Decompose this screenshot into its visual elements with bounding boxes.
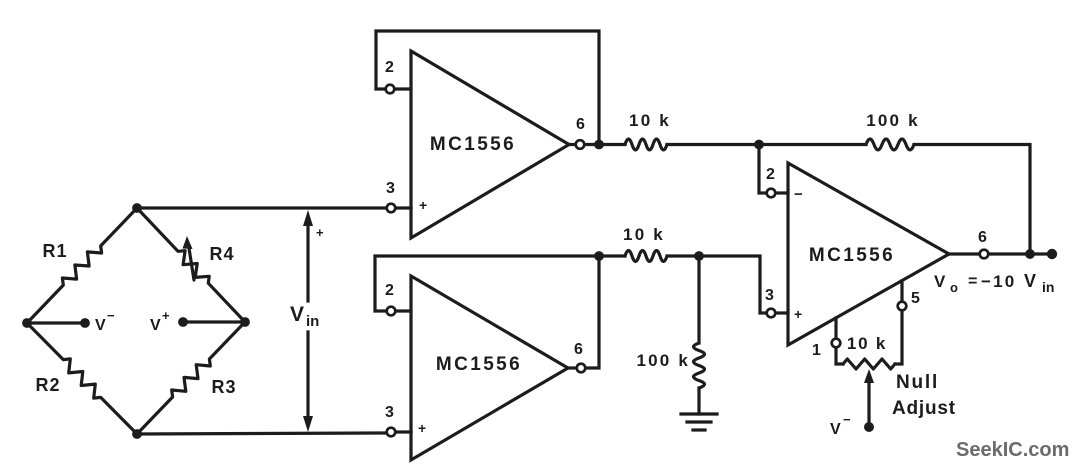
svg-text:−10: −10 xyxy=(981,272,1016,291)
pin 6 of U1 xyxy=(576,140,585,149)
pin 6 of U3 xyxy=(980,250,989,259)
svg-text:o: o xyxy=(950,280,958,295)
svg-text:SeekIC.com: SeekIC.com xyxy=(956,439,1069,461)
wire U2 feedback pin2 to output xyxy=(375,256,599,368)
pin 6 of U2 xyxy=(577,364,586,373)
wire U3 pin1 from triangle xyxy=(834,318,837,338)
resistor R3 xyxy=(137,322,245,434)
svg-text:2: 2 xyxy=(385,282,394,299)
op-amp U2 triangle xyxy=(411,276,568,460)
resistor R6 100k feedback xyxy=(866,139,914,150)
svg-text:6: 6 xyxy=(574,341,583,358)
svg-text:V: V xyxy=(1024,271,1036,291)
svg-text:+: + xyxy=(418,420,426,436)
wire U3 pin5 from triangle xyxy=(900,281,903,301)
svg-text:MC1556: MC1556 xyxy=(436,354,522,375)
op-amp U1 triangle xyxy=(411,51,569,238)
node output terminal xyxy=(1047,249,1057,259)
wire node to U3 pin2 xyxy=(759,145,766,194)
svg-text:2: 2 xyxy=(766,166,775,183)
pin 3 of U1 xyxy=(387,204,396,213)
wire bottom rail bridge to U2 pin3 xyxy=(137,433,386,434)
pin 2 of U1 xyxy=(386,85,395,94)
svg-text:−: − xyxy=(107,308,115,323)
svg-text:10 k: 10 k xyxy=(623,225,665,244)
svg-text:−: − xyxy=(794,186,803,203)
svg-text:3: 3 xyxy=(385,404,394,421)
node output junction xyxy=(1025,249,1035,259)
resistor R4 (variable) xyxy=(137,208,245,322)
wire R6 to output node xyxy=(914,145,1030,255)
resistor R4 arrow xyxy=(189,245,195,280)
op-amp U3 triangle xyxy=(788,163,949,345)
wire U2 pin2 stub xyxy=(396,309,411,312)
pin 3 of U3 xyxy=(767,309,776,318)
wire R8 to ground xyxy=(697,388,700,414)
node tap to R8 xyxy=(694,251,704,261)
wire U1 output to R5 xyxy=(585,143,625,146)
svg-text:+: + xyxy=(316,225,324,240)
svg-text:R3: R3 xyxy=(211,377,236,397)
node V- supply terminal xyxy=(864,422,874,432)
svg-text:−: − xyxy=(843,412,851,427)
wire U3 output to terminal xyxy=(989,252,1052,255)
node V+ terminal xyxy=(178,317,188,327)
wire junction to R7 xyxy=(599,254,625,257)
svg-text:3: 3 xyxy=(386,180,395,197)
svg-text:V: V xyxy=(830,421,841,438)
wire pin1 to pot xyxy=(836,348,843,364)
wire pin5 to pot xyxy=(895,311,902,364)
wire U2 pin3 stub xyxy=(396,430,411,433)
svg-text:100 k: 100 k xyxy=(636,351,690,370)
node bridge left xyxy=(22,318,32,328)
wire U1 output xyxy=(569,143,575,146)
svg-text:=: = xyxy=(968,273,977,290)
resistor R8 100k to ground xyxy=(694,343,705,388)
svg-text:V: V xyxy=(934,272,946,291)
wire U1 pin3 stub xyxy=(396,206,411,209)
svg-text:6: 6 xyxy=(576,116,585,133)
wire top rail bridge to U1 pin3 xyxy=(137,206,386,209)
svg-text:R2: R2 xyxy=(35,375,60,395)
svg-text:V: V xyxy=(150,317,161,334)
svg-text:+: + xyxy=(162,308,170,323)
Vin measurement arrow xyxy=(306,221,309,301)
svg-text:Adjust: Adjust xyxy=(892,398,956,419)
svg-text:6: 6 xyxy=(978,229,987,246)
resistor R1 xyxy=(27,208,137,323)
resistor R2 xyxy=(27,323,137,434)
pin 2 of U2 xyxy=(387,307,396,316)
ground xyxy=(681,412,717,415)
svg-text:10 k: 10 k xyxy=(629,111,671,130)
svg-text:100 k: 100 k xyxy=(866,111,920,130)
svg-text:R4: R4 xyxy=(209,244,234,264)
node V- terminal xyxy=(80,318,90,328)
wire node to R8 xyxy=(697,256,700,343)
svg-text:+: + xyxy=(419,197,427,213)
wire U3 output xyxy=(949,252,979,255)
svg-text:in: in xyxy=(1042,279,1054,295)
wire U3 pin3 stub xyxy=(776,311,788,314)
svg-text:in: in xyxy=(306,313,319,330)
svg-text:+: + xyxy=(794,306,802,322)
svg-text:V: V xyxy=(290,303,304,326)
pin 2 of U3 xyxy=(767,189,776,198)
pin 3 of U2 xyxy=(387,428,396,437)
pin 1 of U3 xyxy=(832,339,841,348)
wire U3 pin2 stub xyxy=(776,191,788,194)
svg-text:5: 5 xyxy=(911,290,920,307)
resistor R5 10k xyxy=(625,139,667,150)
pot wiper arrow xyxy=(867,378,870,426)
wire V+ tap xyxy=(183,320,245,323)
resistor R7 10k xyxy=(625,251,667,262)
wire U1 pin2 stub xyxy=(395,87,411,90)
node tap to U3 pin2 xyxy=(754,140,764,150)
svg-text:Null: Null xyxy=(896,372,939,393)
node bridge bottom xyxy=(132,429,142,439)
wire U1 feedback pin2 to output xyxy=(376,31,599,145)
wire R5 to R6 xyxy=(667,143,866,146)
svg-text:V: V xyxy=(95,317,106,334)
node bridge top xyxy=(132,203,142,213)
svg-text:10 k: 10 k xyxy=(847,334,887,353)
svg-text:MC1556: MC1556 xyxy=(430,134,516,155)
potentiometer 10k null adjust xyxy=(843,359,895,369)
pin 5 of U3 xyxy=(898,302,907,311)
wire U2 output xyxy=(568,366,576,369)
wire V- tap xyxy=(27,321,85,324)
node U2 feedback junction xyxy=(594,251,604,261)
svg-text:MC1556: MC1556 xyxy=(809,245,895,266)
svg-text:R1: R1 xyxy=(42,241,67,261)
svg-text:3: 3 xyxy=(765,287,774,304)
wire R7 to U3 pin3 xyxy=(667,256,766,313)
svg-text:2: 2 xyxy=(385,59,394,76)
svg-text:1: 1 xyxy=(812,342,821,359)
node U1 output junction xyxy=(594,140,604,150)
node bridge right xyxy=(240,317,250,327)
